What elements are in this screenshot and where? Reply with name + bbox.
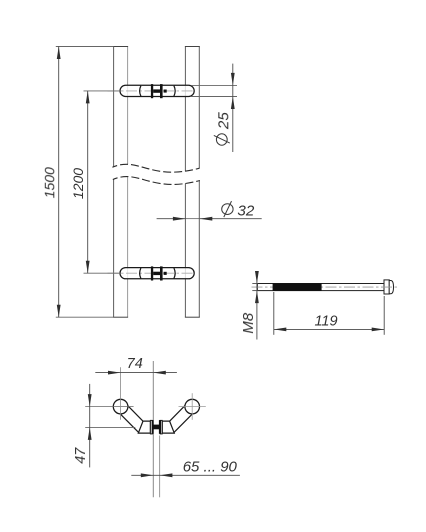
svg-text:119: 119 [314, 313, 337, 329]
svg-text:65 ... 90: 65 ... 90 [183, 459, 238, 476]
svg-text:1500: 1500 [41, 167, 57, 198]
svg-text:47: 47 [73, 447, 89, 464]
svg-text:1200: 1200 [70, 168, 86, 199]
svg-text:74: 74 [127, 356, 143, 372]
svg-text:M8: M8 [240, 312, 257, 333]
svg-text:25: 25 [215, 112, 232, 130]
svg-text:32: 32 [237, 203, 254, 220]
